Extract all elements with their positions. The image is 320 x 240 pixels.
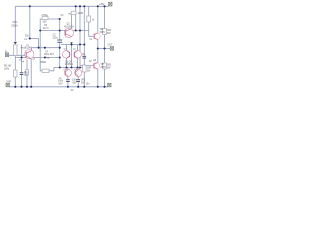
wire x=75.7 down to node (75, 15, 77, 31)
wire upper pair emitter stubs (67, 59, 78, 68)
junction at (71.5,67.5) (70, 66, 72, 68)
junction at (97.8,6.3) (97, 5, 99, 7)
potentiometer box (14, 45, 17, 56)
junction at (80,6.3) (79, 5, 81, 7)
svg-text:100u 63V: 100u 63V (44, 54, 54, 56)
svg-text:100u: 100u (4, 69, 10, 71)
wire upper pair collector stubs (67, 45, 78, 51)
svg-text:BC549: BC549 (25, 47, 33, 49)
svg-text:3055: 3055 (100, 32, 106, 34)
svg-text:TIP: TIP (101, 64, 105, 66)
junction at (104.5,6.3) (103, 5, 105, 7)
transistor output top-right (94, 33, 100, 40)
svg-text:10R: 10R (87, 68, 92, 70)
transistor Q1 (input) (25, 50, 34, 59)
transistor lower pair right (75, 69, 82, 76)
resistor emitter top-right (103, 29, 107, 35)
junction at (59.7,19) (59, 18, 61, 20)
junction at (44.9,47.7) (44, 47, 46, 49)
resistor on x=27 leg (26, 70, 29, 76)
svg-text:63V: 63V (59, 83, 64, 85)
junction at (66.5,67.5) (65, 66, 67, 68)
wire x=27 leg (26, 60, 28, 87)
svg-text:IN: IN (5, 52, 8, 54)
junction at (40.2,30.5) (39, 29, 41, 31)
junction at (77.5,67.5) (76, 66, 78, 68)
svg-text:63V: 63V (43, 21, 48, 23)
wire Q1 emitter down (30, 59, 32, 87)
value/designator labels (4, 4, 113, 92)
svg-text:680R: 680R (41, 62, 47, 64)
resistor R2 (horizontal, top) (14, 11, 107, 77)
wire bias drop x=29.8 with jog (30, 6, 39, 47)
wire x=97.8 mid (97, 49, 99, 63)
svg-text:470n: 470n (12, 22, 18, 24)
junction at (29.8,6.3) (29, 5, 31, 7)
junction at (97.8,86.8) (97, 86, 99, 88)
transistor output bottom-right (93, 62, 99, 69)
wire vertical x=40.2 (40, 19, 42, 71)
transistor lower pair left (64, 69, 71, 76)
svg-text:220R: 220R (78, 13, 84, 15)
junction at (80,67.5) (79, 66, 81, 68)
wire lower pair stubs (68, 68, 78, 70)
junction at (104.5,86.8) (103, 86, 105, 88)
junction at (84.3,6.3) (83, 5, 85, 7)
resistor bootstrap (top middle) (71, 11, 76, 15)
junction at (59.7,30.5) (59, 29, 61, 31)
wire left rail drop to pot (14, 6, 16, 41)
junction at (59.7,47.7) (59, 47, 61, 49)
wire pot bottom / feedback y=57.5 (15, 56, 59, 58)
svg-text:TIP: TIP (100, 29, 104, 31)
svg-text:100n: 100n (58, 81, 64, 83)
resistor emitter bottom-right (103, 63, 107, 69)
wire x=80 rail to base corner (80, 6, 94, 65)
junction at (31.2,86.8) (30, 86, 32, 88)
junction at (97.8,48.5) (97, 47, 99, 49)
junction at (15.3,86.8) (14, 86, 16, 88)
wire R7 link up (49, 68, 54, 71)
wire lower pair down legs (67, 76, 69, 87)
junction at (84.3,44.5) (83, 43, 85, 45)
junction at (29.8,38.5) (29, 37, 31, 39)
svg-text:+35V: +35V (99, 4, 105, 6)
wire emitter QR bottom down (97, 69, 99, 87)
wire feedback R leg x=15.3 (14, 58, 16, 87)
junction at (80,44.5) (79, 43, 81, 45)
transistor Q2 (driver, mid top) (64, 28, 73, 37)
wire collector QR top (97, 6, 99, 33)
wire base feed x=88.7 (88, 6, 90, 30)
wire R bootstrap right lead (75, 6, 77, 11)
terminal +35V (109, 2, 113, 6)
wire R2 top link y=19 (40, 18, 60, 20)
wire feedback C leg x=21.5 (21, 58, 23, 87)
junction at (75.7,30.5) (75, 29, 77, 31)
svg-text:0R1: 0R1 (107, 30, 112, 32)
wire x=84.3 rail down (83, 6, 85, 87)
svg-text:0R1: 0R1 (81, 80, 86, 82)
wire node y=30.5 left (40, 30, 65, 32)
pot wiper arrow (14, 42, 73, 45)
wire emitter QR top down (97, 40, 99, 49)
wire x=21.6 link (21, 45, 23, 58)
wire node A y=44.5 (61, 44, 85, 46)
junction at (38.6,47.7) (38, 47, 40, 49)
resistor feedback (left-bottom vertical) (14, 70, 17, 77)
wire collector Q2 up (71, 15, 73, 29)
junction at (59.7,57.5) (59, 56, 61, 58)
junction dots (14, 5, 105, 88)
transistor upper pair right (74, 51, 82, 59)
terminal IN (5, 2, 113, 87)
svg-text:MJ15003: MJ15003 (64, 26, 74, 28)
junction at (67.9,86.8) (67, 86, 69, 88)
junction at (27,86.8) (26, 86, 28, 88)
svg-text:63V: 63V (73, 82, 78, 84)
wire +35V rail (15, 5, 108, 7)
wire center drive x=71.5 (71, 45, 73, 68)
junction at (75.7,6.3) (75, 5, 77, 7)
svg-text:220u: 220u (53, 37, 59, 39)
wire x=104.5 chain (104, 6, 106, 87)
junction at (44.9,57.5) (44, 56, 46, 58)
resistor zobel (83, 65, 87, 72)
resistor R7 (bottom horizontal) (42, 69, 49, 72)
junction at (84.3,86.8) (83, 86, 85, 88)
terminal OUT (110, 47, 113, 51)
svg-text:0V: 0V (71, 90, 74, 92)
junction at (59.7,67.5) (59, 66, 61, 68)
capacitor feedback (x=21.5) (20, 73, 24, 75)
wire ground rail (9, 86, 107, 88)
svg-text:2k7 F: 2k7 F (43, 28, 49, 30)
svg-text:MJ4502: MJ4502 (65, 64, 74, 66)
wire node y=30.5 right (73, 31, 94, 37)
svg-text:R6 2k2: R6 2k2 (4, 66, 12, 68)
svg-text:Q3,Q4: Q3,Q4 (65, 61, 72, 63)
capacitor lower pair left (66, 80, 70, 82)
red designator labels (20, 13, 78, 71)
resistor base feed top-right (87, 16, 91, 22)
svg-text:0R1: 0R1 (107, 65, 112, 67)
svg-text:GND: GND (6, 81, 11, 83)
svg-text:220kA: 220kA (11, 24, 18, 27)
junction at (78.2,86.8) (77, 86, 79, 88)
emitter arrow Q2 to node A (70, 42, 73, 44)
capacitor C2 (x=59.7 plates) (20, 40, 86, 82)
svg-text:OUT: OUT (108, 45, 113, 47)
wire node B y=67.5 (54, 67, 84, 69)
transistor upper pair left (62, 51, 70, 59)
svg-text:2700u: 2700u (42, 15, 49, 17)
junction at (71.5,44.5) (70, 43, 72, 45)
svg-text:2955: 2955 (101, 67, 107, 69)
terminal GND left (6, 83, 9, 87)
wire input to base (9, 54, 26, 56)
terminal 0V bottom right (108, 83, 111, 87)
wire driver cap x=59.7 lower (59, 43, 61, 68)
junction at (21.5,86.8) (20, 86, 22, 88)
capacitor lower pair right (76, 80, 80, 82)
wire output node (98, 48, 110, 50)
junction at (21.6,57.5) (21, 56, 23, 58)
junction at (80,54.6) (79, 54, 81, 56)
svg-text:25V: 25V (24, 75, 29, 77)
wire vertical x=59.7 upper (59, 19, 61, 39)
capacitor zobel plates (83, 56, 87, 58)
junction at (80,30.5) (79, 29, 81, 31)
svg-text:100n: 100n (72, 80, 78, 82)
wire Q1 collector (32, 48, 60, 51)
junction at (104.5,48.5) (103, 47, 105, 49)
